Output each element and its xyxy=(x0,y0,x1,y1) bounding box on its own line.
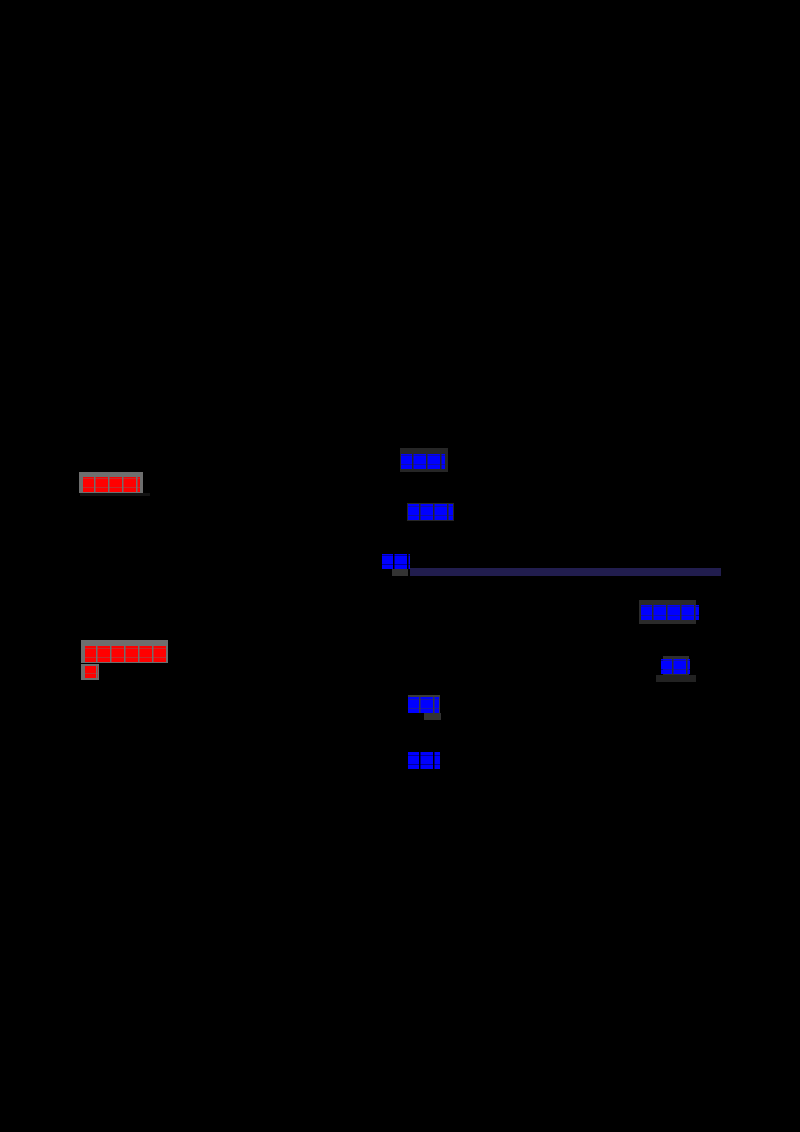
red text R2 line1 xyxy=(85,646,167,662)
gray highlight box R1 xyxy=(79,472,143,493)
gray patch under C xyxy=(392,569,408,576)
blue link text F xyxy=(408,697,439,713)
gray link box F xyxy=(408,695,440,713)
faint patch under E xyxy=(656,675,696,682)
blue link text C xyxy=(382,554,410,569)
faint link box E xyxy=(663,656,689,675)
blue link text A xyxy=(401,454,445,469)
red text R1 xyxy=(83,477,140,492)
navy underline bar xyxy=(410,568,721,576)
blue link text D xyxy=(641,605,699,620)
faint text row under R1 xyxy=(80,493,150,496)
faint link box D xyxy=(639,600,696,624)
red text R2 line2 xyxy=(85,666,98,678)
blue link text E xyxy=(661,659,690,674)
gray highlight box R2 line2 xyxy=(81,664,99,680)
faint link box A xyxy=(400,448,448,472)
blue link text B xyxy=(408,504,453,520)
gray patch under F xyxy=(424,713,441,720)
blue link text G xyxy=(408,752,440,769)
gray highlight box R2 line1 xyxy=(81,640,168,663)
faint link box B xyxy=(407,503,454,521)
